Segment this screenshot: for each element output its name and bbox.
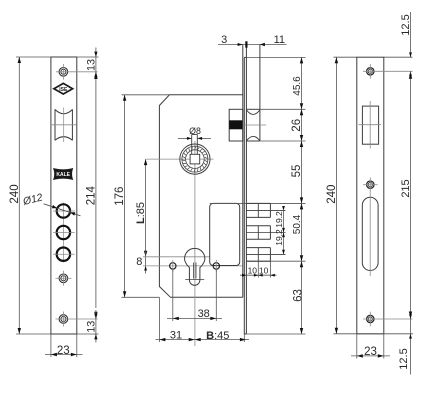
B45 extension verticals	[158, 297, 160, 342]
svg-text:55: 55	[291, 165, 303, 178]
dimension 23 (strike plate width)	[351, 334, 390, 359]
strike plate top extension to 12.5	[384, 56, 413, 58]
svg-text:Ø8: Ø8	[189, 126, 201, 136]
dimension 45.6	[292, 57, 303, 109]
screw holes centreline horizontal	[143, 265, 243, 267]
dimension 12.5 top	[400, 12, 412, 76]
strike plate top screw hole	[363, 64, 413, 79]
dimension 50.4	[292, 203, 303, 261]
svg-text:214: 214	[85, 186, 97, 206]
svg-text:23: 23	[57, 345, 70, 357]
latch bolt black spring block	[229, 120, 242, 129]
dimension 214 (left plate screw spacing)	[85, 73, 97, 318]
dimension 63	[292, 261, 304, 334]
dimension 10 left	[240, 266, 277, 277]
left faceplate outline	[51, 57, 77, 334]
deadbolt tooth 1	[246, 203, 285, 217]
strike plate deadbolt slot (obround)	[362, 192, 378, 276]
38 extension verticals from screw holes	[172, 270, 174, 322]
dimension 10 right	[254, 266, 275, 277]
lock case outline	[159, 95, 242, 297]
svg-text:13: 13	[85, 59, 97, 71]
svg-text:19.2: 19.2	[274, 229, 284, 246]
svg-text:13: 13	[85, 321, 97, 333]
dimension B:45 (backset)	[195, 330, 246, 342]
svg-text:L:85: L:85	[135, 202, 147, 224]
deadbolt teeth centre vertical	[257, 203, 259, 217]
left plate top screw hole	[56, 64, 98, 80]
vertical centerline through bolt holes	[62, 203, 64, 263]
deadbolt top edge / extension	[210, 202, 306, 204]
dimension 23 (left plate width)	[45, 334, 83, 357]
svg-text:KALE: KALE	[56, 172, 70, 178]
strike plate bottom screw hole	[363, 312, 413, 327]
faceplate bottom extension line	[246, 333, 305, 335]
bolt hole 2	[53, 226, 75, 239]
svg-text:3: 3	[221, 34, 227, 46]
dimension 31 (case left to cylinder axis)	[156, 330, 250, 342]
ISE certification diamond logo	[54, 83, 73, 94]
follower hub (square spindle hole)	[146, 141, 214, 346]
deadbolt tooth 2	[246, 226, 285, 240]
bolt hole 3	[53, 248, 75, 261]
euro profile cylinder	[185, 248, 205, 285]
svg-text:26: 26	[291, 119, 303, 132]
spindle O8 stub above hub	[192, 135, 198, 155]
svg-text:8: 8	[136, 256, 142, 268]
dimension O8 (spindle)	[178, 126, 211, 140]
svg-text:19.2: 19.2	[274, 211, 284, 228]
svg-text:B:45: B:45	[206, 330, 229, 342]
KALE brand logo	[54, 169, 72, 179]
latch bolt head	[245, 45, 266, 142]
bolt hole 1 (O12)	[53, 204, 75, 217]
svg-text:240: 240	[9, 184, 21, 203]
dimension 13 bottom-left	[77, 310, 99, 343]
deadbolt tooth 3	[246, 248, 285, 262]
svg-text:38: 38	[198, 308, 210, 320]
svg-text:23: 23	[364, 346, 377, 358]
svg-text:11: 11	[274, 34, 285, 46]
dimension 19.2 lower	[274, 229, 285, 254]
strike plate outline	[357, 57, 384, 334]
dimension 13 top-left	[77, 48, 99, 85]
deadbolt bottom edge / extension	[246, 260, 305, 262]
dimension 11 (latch projection)	[260, 34, 285, 46]
lock case right edge / extension to 3-11 dims	[242, 45, 244, 298]
left plate middle screw hole	[56, 271, 72, 286]
faceplate top extension line	[246, 56, 305, 58]
svg-text:12.5: 12.5	[400, 14, 412, 35]
dimension L:85 (hub to cylinder centres)	[135, 159, 148, 257]
strike plate middle screw hole	[363, 177, 378, 192]
left plate bottom screw hole	[56, 312, 98, 327]
dimension 240 (left)	[9, 57, 51, 334]
dimension 19.2 upper	[274, 206, 285, 254]
right dimension column line	[301, 57, 303, 334]
svg-text:240: 240	[326, 185, 338, 204]
cylinder fixing screw hole left	[170, 260, 176, 272]
svg-text:176: 176	[114, 187, 126, 206]
svg-text:63: 63	[292, 289, 304, 302]
cylinder fixing screw hole right	[213, 260, 219, 272]
latch top extension line	[260, 108, 306, 110]
latch bolt tail inside case	[229, 109, 243, 141]
10-10 extension verticals	[257, 261, 259, 277]
dimension 8 (cylinder centre to screw centre)	[136, 250, 147, 274]
dimension 240 (right)	[326, 57, 413, 334]
cylinder retaining plate (rounded rectangle)	[210, 203, 240, 265]
svg-text:10: 10	[248, 266, 258, 276]
svg-text:10: 10	[259, 266, 269, 276]
svg-text:12.5: 12.5	[398, 348, 410, 369]
svg-text:215: 215	[400, 179, 412, 197]
svg-text:ISE: ISE	[59, 87, 68, 93]
svg-text:45.6: 45.6	[292, 76, 303, 96]
forend faceplate (middle view)	[244, 45, 246, 335]
dimension 215 (screw spacing right)	[400, 71, 412, 319]
cylinder centreline horizontal	[143, 256, 210, 258]
dimension 12.5 bottom	[398, 314, 412, 374]
dimension 176 (case height)	[114, 95, 170, 297]
strike plate latch opening	[359, 101, 382, 149]
latch bottom extension line	[260, 140, 306, 142]
svg-text:31: 31	[170, 330, 182, 342]
dimension 38 (screw spacing)	[167, 308, 222, 320]
dimension O12 leader	[21, 191, 81, 215]
roller (latch wheel) on left plate	[51, 108, 77, 143]
dimension 3 (faceplate thickness)	[218, 34, 287, 48]
dimension 55	[291, 141, 303, 203]
dimension 26	[291, 109, 303, 141]
svg-text:50.4: 50.4	[292, 214, 303, 234]
